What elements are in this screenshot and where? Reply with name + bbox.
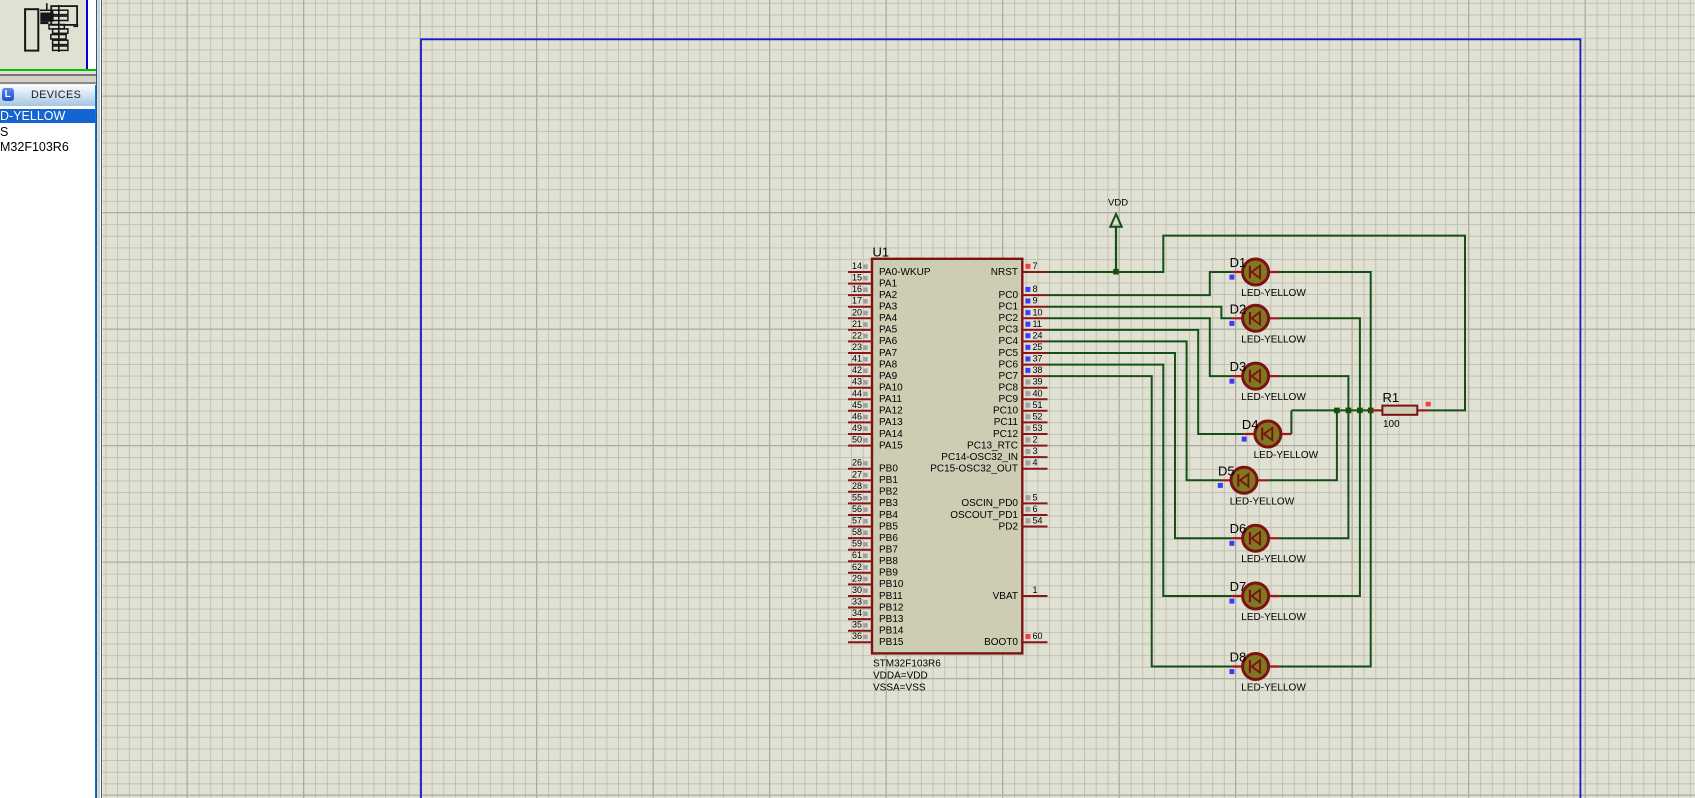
svg-text:OSCIN_PD0: OSCIN_PD0	[961, 498, 1018, 509]
U1 value labels	[873, 659, 941, 694]
D3 state indicator	[1229, 379, 1234, 384]
svg-text:30: 30	[852, 585, 862, 595]
svg-text:56: 56	[852, 504, 862, 514]
U1 pin 61 PB8	[848, 550, 898, 567]
svg-text:34: 34	[852, 608, 862, 618]
svg-text:LED-YELLOW: LED-YELLOW	[1241, 612, 1306, 623]
U1 reference label	[873, 245, 890, 260]
U1 pin 24 PC4	[999, 330, 1048, 347]
U1 pin 27 PB1	[848, 469, 898, 486]
svg-text:54: 54	[1033, 516, 1043, 526]
svg-text:62: 62	[852, 562, 862, 572]
svg-text:PB0: PB0	[879, 464, 898, 475]
U1 pin 51 PC10	[993, 400, 1048, 417]
svg-text:PB6: PB6	[879, 533, 898, 544]
svg-text:PC13_RTC: PC13_RTC	[967, 440, 1018, 451]
U1 pin 21 PA5	[848, 319, 898, 336]
svg-text:BOOT0: BOOT0	[984, 637, 1018, 648]
U1 pin 59 PB7	[848, 539, 898, 556]
svg-text:5: 5	[1033, 492, 1038, 502]
svg-text:PD2: PD2	[999, 521, 1019, 532]
svg-text:PA3: PA3	[879, 302, 898, 313]
LED D7	[1232, 583, 1279, 609]
U1 pin 9 PC1	[999, 296, 1048, 313]
U1 pin 10 PC2	[999, 307, 1048, 324]
R1 value label 100	[1383, 419, 1400, 430]
svg-text:NRST: NRST	[991, 267, 1018, 278]
node bus junction 3	[1357, 408, 1363, 414]
svg-text:4: 4	[1033, 458, 1038, 468]
D2 reference label	[1230, 301, 1247, 316]
U1 pin 22 PA6	[848, 330, 898, 347]
U1 pin 15 PA1	[848, 273, 898, 290]
U1 pin 30 PB11	[848, 585, 903, 602]
D6 reference label	[1230, 521, 1247, 536]
svg-text:D5: D5	[1218, 463, 1235, 478]
svg-text:8: 8	[1033, 284, 1038, 294]
wire D2 anode to bus	[1279, 318, 1360, 410]
U1 pin 60 BOOT0	[984, 631, 1047, 648]
svg-text:D3: D3	[1230, 359, 1247, 374]
svg-text:R1: R1	[1383, 390, 1400, 405]
svg-text:PA7: PA7	[879, 348, 898, 359]
D3 reference label	[1230, 359, 1247, 374]
U1 pin 44 PA11	[848, 388, 902, 405]
svg-text:VBAT: VBAT	[993, 591, 1018, 602]
svg-text:21: 21	[852, 319, 862, 329]
svg-text:37: 37	[1033, 354, 1043, 364]
svg-text:PC9: PC9	[999, 394, 1019, 405]
svg-text:LED-YELLOW: LED-YELLOW	[1241, 288, 1306, 299]
svg-text:35: 35	[852, 620, 862, 630]
svg-text:9: 9	[1033, 296, 1038, 306]
svg-text:23: 23	[852, 342, 862, 352]
U1 pin 50 PA15	[848, 435, 903, 452]
svg-text:LED-YELLOW: LED-YELLOW	[1230, 496, 1295, 507]
U1 pin 11 PC3	[999, 319, 1048, 336]
svg-text:PB1: PB1	[879, 475, 898, 486]
svg-text:PB8: PB8	[879, 556, 898, 567]
node bus junction 1	[1334, 408, 1340, 414]
svg-text:15: 15	[852, 273, 862, 283]
wire PC4 to D5	[1048, 341, 1221, 480]
svg-text:41: 41	[852, 354, 862, 364]
svg-text:LED-YELLOW: LED-YELLOW	[1241, 334, 1306, 345]
svg-text:PB11: PB11	[879, 591, 903, 602]
svg-text:40: 40	[1033, 388, 1043, 398]
svg-text:45: 45	[852, 400, 862, 410]
U1 pin 40 PC9	[999, 388, 1048, 405]
LED D5	[1221, 467, 1268, 493]
wire D3 anode to bus	[1279, 376, 1348, 410]
U1 pin 17 PA3	[848, 296, 898, 313]
D4 reference label	[1242, 417, 1259, 432]
LED D1	[1232, 259, 1279, 285]
wire D8 anode to bus	[1279, 410, 1371, 666]
U1 pin 38 PC7	[999, 365, 1048, 382]
svg-text:PA1: PA1	[879, 278, 898, 289]
svg-text:28: 28	[852, 481, 862, 491]
svg-text:20: 20	[852, 307, 862, 317]
svg-text:PA14: PA14	[879, 429, 903, 440]
svg-text:53: 53	[1033, 423, 1043, 433]
svg-text:VDDA=VDD: VDDA=VDD	[873, 671, 928, 682]
svg-text:43: 43	[852, 377, 862, 387]
U1 pin 8 PC0	[999, 284, 1048, 301]
svg-text:PB10: PB10	[879, 579, 904, 590]
svg-text:58: 58	[852, 527, 862, 537]
svg-text:D1: D1	[1230, 255, 1247, 270]
svg-text:D4: D4	[1242, 417, 1259, 432]
svg-text:PB15: PB15	[879, 637, 904, 648]
wire NRST net: pin 7 to VDD rail and R1 right terminal	[1048, 236, 1466, 411]
D2 state indicator	[1229, 321, 1234, 326]
wire PC0 to D1	[1048, 272, 1233, 295]
svg-text:26: 26	[852, 458, 862, 468]
svg-text:PB7: PB7	[879, 545, 898, 556]
U1 pin 20 PA4	[848, 307, 898, 324]
svg-text:PC12: PC12	[993, 429, 1018, 440]
svg-text:U1: U1	[873, 245, 890, 260]
wire D5 anode to bus	[1268, 410, 1337, 480]
svg-text:14: 14	[852, 261, 862, 271]
D4 value label LED-YELLOW	[1254, 450, 1319, 461]
U1 pin 37 PC6	[999, 354, 1048, 371]
svg-text:D6: D6	[1230, 521, 1247, 536]
U1 pin 34 PB13	[848, 608, 904, 625]
svg-text:D8: D8	[1230, 650, 1247, 665]
svg-text:36: 36	[852, 631, 862, 641]
U1 pin 45 PA12	[848, 400, 903, 417]
svg-text:D2: D2	[1230, 301, 1247, 316]
svg-text:PB4: PB4	[879, 510, 898, 521]
U1 pin 3 PC14-OSC32_IN	[941, 446, 1047, 463]
svg-text:PA10: PA10	[879, 383, 903, 394]
svg-text:16: 16	[852, 284, 862, 294]
svg-text:3: 3	[1033, 446, 1038, 456]
node bus junction 2	[1346, 408, 1352, 414]
svg-text:PC5: PC5	[999, 348, 1019, 359]
svg-text:1: 1	[1033, 585, 1038, 595]
resistor R1 leads	[1371, 409, 1428, 411]
svg-text:PB14: PB14	[879, 626, 904, 637]
R1 terminal marker	[1426, 402, 1431, 407]
wire PC1 to D2	[1048, 307, 1233, 319]
U1 pin 16 PA2	[848, 284, 898, 301]
U1 pin 35 PB14	[848, 620, 904, 637]
LED D3	[1232, 363, 1279, 389]
svg-text:51: 51	[1033, 400, 1043, 410]
svg-text:PB2: PB2	[879, 487, 898, 498]
U1 pin 26 PB0	[848, 458, 898, 475]
svg-text:11: 11	[1033, 319, 1042, 329]
svg-text:100: 100	[1383, 419, 1400, 430]
U1 pin 55 PB3	[848, 492, 898, 509]
R1 reference label	[1383, 390, 1400, 405]
svg-text:49: 49	[852, 423, 862, 433]
svg-text:STM32F103R6: STM32F103R6	[873, 659, 941, 670]
U1 pin 33 PB12	[848, 597, 904, 614]
svg-text:25: 25	[1033, 342, 1043, 352]
LED D6	[1232, 525, 1279, 551]
LED D8	[1232, 654, 1279, 680]
svg-text:59: 59	[852, 539, 862, 549]
svg-text:PC10: PC10	[993, 406, 1018, 417]
svg-text:PC6: PC6	[999, 359, 1019, 370]
U1 pin 46 PA13	[848, 411, 903, 428]
svg-text:PA4: PA4	[879, 313, 898, 324]
svg-text:PB9: PB9	[879, 568, 898, 579]
svg-text:PB3: PB3	[879, 498, 898, 509]
U1 pin 23 PA7	[848, 342, 898, 359]
svg-text:46: 46	[852, 411, 862, 421]
op-amp U1 body (MCU STM32F103R6)	[872, 259, 1022, 654]
wire PC6 to D7	[1048, 365, 1233, 596]
U1 pin 5 OSCIN_PD0	[961, 492, 1047, 509]
svg-text:PA15: PA15	[879, 440, 903, 451]
D2 value label LED-YELLOW	[1241, 334, 1306, 345]
node VDD junction	[1113, 269, 1119, 275]
U1 pin 57 PB5	[848, 516, 898, 533]
power VDD symbol	[1108, 198, 1128, 272]
svg-text:PA5: PA5	[879, 325, 898, 336]
svg-text:60: 60	[1033, 631, 1043, 641]
wire D4 anode to bus	[1290, 410, 1292, 434]
svg-text:PC15-OSC32_OUT: PC15-OSC32_OUT	[930, 464, 1018, 475]
svg-text:OSCOUT_PD1: OSCOUT_PD1	[950, 510, 1018, 521]
svg-text:PA6: PA6	[879, 336, 898, 347]
node bus junction 4	[1368, 408, 1374, 414]
wire PC7 to D8	[1048, 376, 1233, 666]
svg-text:57: 57	[852, 516, 862, 526]
svg-text:PA8: PA8	[879, 359, 898, 370]
svg-text:LED-YELLOW: LED-YELLOW	[1254, 450, 1319, 461]
U1 pin 14 PA0-WKUP	[848, 261, 931, 278]
svg-text:PC14-OSC32_IN: PC14-OSC32_IN	[941, 452, 1018, 463]
svg-text:PB13: PB13	[879, 614, 904, 625]
D7 state indicator	[1229, 599, 1234, 604]
wire PC3 to D4	[1048, 330, 1245, 434]
U1 pin 52 PC11	[994, 411, 1048, 428]
svg-text:7: 7	[1033, 261, 1038, 271]
svg-text:LED-YELLOW: LED-YELLOW	[1241, 392, 1306, 403]
wire D6 anode to bus	[1279, 410, 1348, 538]
svg-text:VDD: VDD	[1108, 198, 1128, 209]
U1 pin 43 PA10	[848, 377, 903, 394]
U1 pin 6 OSCOUT_PD1	[950, 504, 1047, 521]
U1 pin 53 PC12	[993, 423, 1048, 440]
svg-text:2: 2	[1033, 435, 1038, 445]
D8 reference label	[1230, 650, 1247, 665]
D6 value label LED-YELLOW	[1241, 554, 1306, 565]
svg-text:38: 38	[1033, 365, 1043, 375]
wire PC5 to D6	[1048, 353, 1233, 538]
LED D2	[1232, 305, 1279, 331]
resistor R1	[1382, 406, 1417, 415]
D1 value label LED-YELLOW	[1241, 288, 1306, 299]
U1 pin 1 VBAT	[993, 585, 1048, 602]
D4 state indicator	[1242, 437, 1247, 442]
svg-text:PC1: PC1	[999, 302, 1019, 313]
svg-text:24: 24	[1033, 330, 1043, 340]
svg-text:PA0-WKUP: PA0-WKUP	[879, 267, 931, 278]
svg-text:6: 6	[1033, 504, 1038, 514]
svg-text:22: 22	[852, 330, 862, 340]
U1 pin 29 PB10	[848, 573, 904, 590]
U1 pin 36 PB15	[848, 631, 904, 648]
D3 value label LED-YELLOW	[1241, 392, 1306, 403]
svg-text:PB12: PB12	[879, 602, 904, 613]
D8 state indicator	[1229, 669, 1234, 674]
LED D4	[1244, 421, 1291, 447]
svg-text:39: 39	[1033, 377, 1043, 387]
U1 pin 42 PA9	[848, 365, 898, 382]
U1 pin 56 PB4	[848, 504, 898, 521]
svg-text:PC8: PC8	[999, 383, 1019, 394]
svg-text:52: 52	[1033, 411, 1043, 421]
svg-text:42: 42	[852, 365, 862, 375]
wire D7 anode to bus	[1279, 410, 1360, 596]
D5 reference label	[1218, 463, 1235, 478]
overview preview window	[0, 0, 86, 71]
D7 value label LED-YELLOW	[1241, 612, 1306, 623]
svg-text:PA13: PA13	[879, 417, 903, 428]
svg-text:LED-YELLOW: LED-YELLOW	[1241, 554, 1306, 565]
U1 pin 2 PC13_RTC	[967, 435, 1047, 452]
svg-text:27: 27	[852, 469, 862, 479]
svg-text:D7: D7	[1230, 579, 1247, 594]
svg-text:55: 55	[852, 492, 862, 502]
U1 pin 4 PC15-OSC32_OUT	[930, 458, 1047, 475]
svg-text:PC2: PC2	[999, 313, 1019, 324]
svg-text:PA11: PA11	[879, 394, 902, 405]
U1 pin 62 PB9	[848, 562, 898, 579]
D7 reference label	[1230, 579, 1247, 594]
svg-text:LED-YELLOW: LED-YELLOW	[1241, 683, 1306, 694]
D8 value label LED-YELLOW	[1241, 683, 1306, 694]
svg-text:PB5: PB5	[879, 521, 898, 532]
D6 state indicator	[1229, 541, 1234, 546]
wire anode bus to R1	[1291, 409, 1371, 411]
svg-text:33: 33	[852, 597, 862, 607]
U1 pin 39 PC8	[999, 377, 1048, 394]
svg-text:PC7: PC7	[999, 371, 1019, 382]
svg-text:29: 29	[852, 573, 862, 583]
D5 value label LED-YELLOW	[1230, 496, 1295, 507]
U1 pin 49 PA14	[848, 423, 903, 440]
U1 pin 54 PD2	[999, 516, 1048, 533]
svg-text:VSSA=VSS: VSSA=VSS	[873, 683, 926, 694]
svg-text:44: 44	[852, 388, 862, 398]
svg-text:PA2: PA2	[879, 290, 898, 301]
svg-text:PC3: PC3	[999, 325, 1019, 336]
U1 pin 7 NRST	[991, 261, 1048, 278]
svg-text:PC0: PC0	[999, 290, 1019, 301]
U1 pin 58 PB6	[848, 527, 898, 544]
D1 state indicator	[1229, 275, 1234, 280]
wire PC2 to D3	[1048, 318, 1233, 376]
svg-text:17: 17	[852, 296, 862, 306]
D1 reference label	[1230, 255, 1247, 270]
svg-text:61: 61	[852, 550, 862, 560]
svg-text:10: 10	[1033, 307, 1043, 317]
svg-text:PA12: PA12	[879, 406, 903, 417]
svg-text:PA9: PA9	[879, 371, 898, 382]
svg-text:PC11: PC11	[994, 417, 1019, 428]
D5 state indicator	[1218, 483, 1223, 488]
U1 pin 41 PA8	[848, 354, 898, 371]
U1 pin 28 PB2	[848, 481, 898, 498]
svg-text:50: 50	[852, 435, 862, 445]
U1 pin 25 PC5	[999, 342, 1048, 359]
svg-text:PC4: PC4	[999, 336, 1019, 347]
wire D1 anode to bus	[1279, 272, 1371, 410]
